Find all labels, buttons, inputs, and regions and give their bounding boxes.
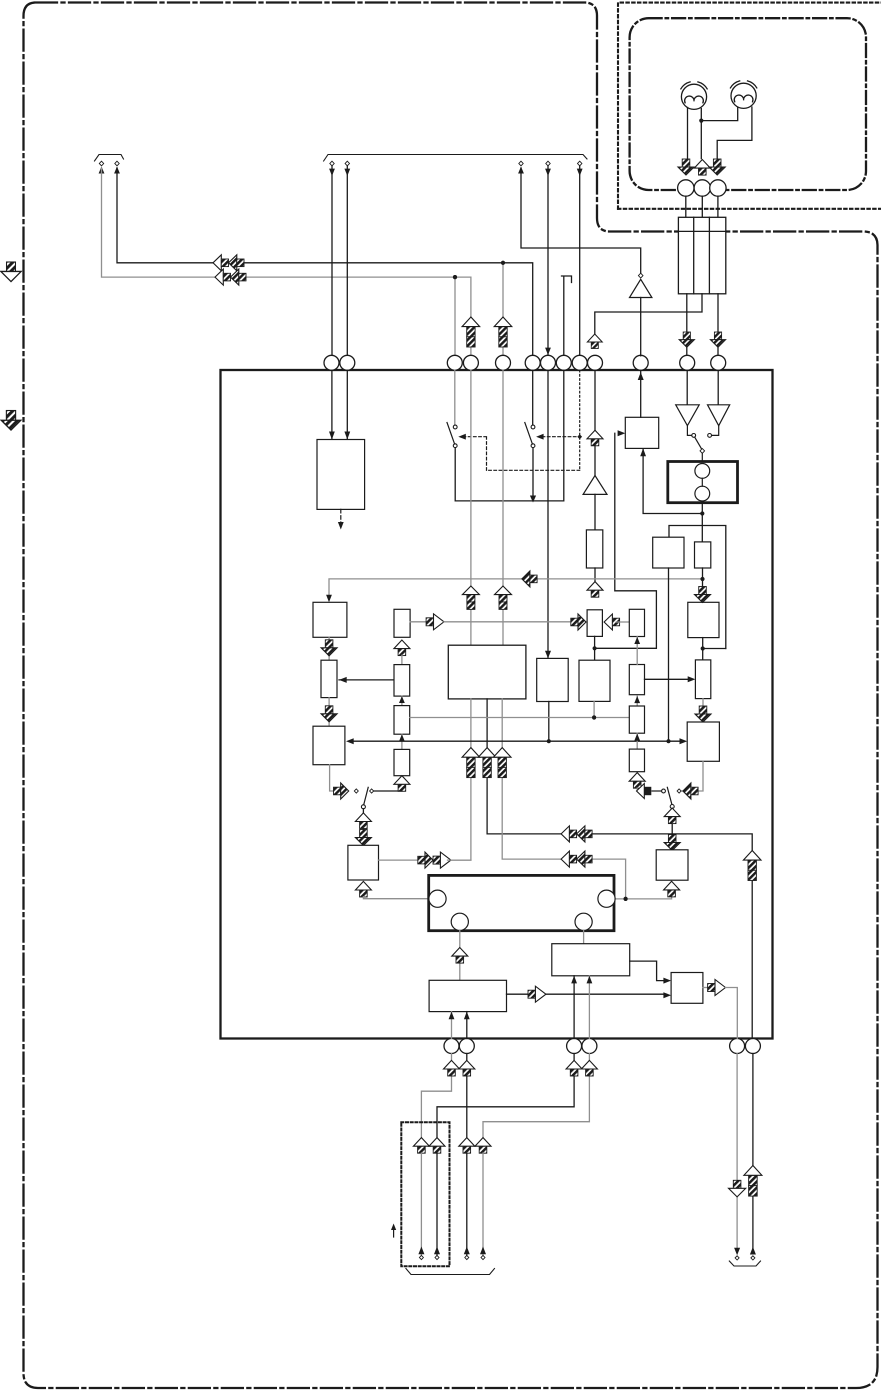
wire pin to switch S2 — [532, 370, 534, 425]
U1 left input with arrowhead, feedback loop path — [595, 433, 657, 648]
block A: EQ — [313, 602, 347, 637]
block: small buffer — [587, 610, 602, 637]
gray feed pin to DSP top — [502, 370, 504, 645]
black feed pin to mixer block with arrowhead — [547, 370, 549, 658]
wire S1/S2 outputs merge and rise to pin — [455, 370, 564, 501]
block: level shifter (tall) — [586, 530, 602, 568]
node diamond w1 — [330, 161, 334, 166]
connector bracket (top centre) — [324, 155, 587, 162]
right column rect RC2 — [629, 665, 644, 695]
down arrow type A on left wire — [729, 1180, 746, 1197]
wires pins w1,w2 into input block with arrowheads — [332, 370, 347, 439]
block: volume control (thick) — [668, 462, 738, 503]
column2 rect 3 — [394, 706, 410, 735]
junction node — [501, 261, 505, 265]
right column rect RC1 — [629, 609, 644, 636]
cable bracket below — [406, 1269, 495, 1275]
block D output right to U3 — [507, 993, 529, 995]
off-page arrow (left edge, to other page) type B down — [1, 411, 21, 431]
B3b bottom to gray bus junction — [593, 701, 595, 717]
flow arrow down (mic signal) — [678, 159, 694, 175]
amp triangle up (headphone) — [583, 476, 607, 495]
right column rect RC3 — [629, 706, 644, 733]
column2 rect 4 — [394, 749, 410, 775]
flow arrow down below limiter — [328, 698, 330, 727]
column2 rect 1 — [394, 609, 410, 637]
junction arrow on merge line — [530, 496, 536, 503]
SW4 pole chain down to U2 — [671, 809, 673, 850]
left flow arrow (hatched) on B5 output — [683, 783, 698, 799]
gray line col2R1 to buffer with arrows — [444, 621, 572, 623]
wire w3 up-arrow output from amp — [518, 167, 524, 174]
block V3 narrow — [695, 660, 710, 699]
block C output right to DSP return — [379, 859, 418, 861]
control junction diamond — [577, 434, 582, 439]
RC2 output right to V3 — [645, 678, 692, 680]
wire connector cell3 down to pin — [717, 294, 719, 356]
small reference arrow — [393, 1228, 395, 1237]
up arrow dbl-box on output return line — [743, 851, 761, 881]
dotted group box — [401, 1122, 449, 1266]
wire down across gray bus — [594, 568, 596, 582]
right output pair below box — [736, 1054, 738, 1250]
off-page arrow (left edge, to other page) type A down — [1, 262, 21, 282]
SW3 pole chain down to block C — [362, 809, 364, 846]
wire connector cell1 down to pin — [686, 294, 688, 356]
selector switch from amps — [687, 426, 718, 436]
switch SW3 contacts — [354, 789, 358, 793]
microphone MIC1 — [681, 82, 707, 110]
node diamond w5 — [578, 161, 582, 166]
T split under volume — [669, 526, 726, 649]
node diamond w3 — [519, 161, 523, 166]
junction gray bus into codec wire — [624, 897, 628, 901]
up arrow dbl-box above pin (gray column) — [462, 317, 480, 347]
flow arrows pair left (upper line) — [213, 255, 244, 271]
amp triangle down (mic L) — [676, 405, 700, 426]
right column rect RC4 — [629, 749, 644, 772]
feedback branch to U1 square bottom — [643, 448, 702, 513]
block: U1 control square — [625, 417, 658, 448]
up arrow below col2R1 — [394, 640, 410, 656]
cable bracket below right pair — [729, 1261, 760, 1266]
junction node — [453, 275, 457, 279]
codec DAC-R wire down to block E — [583, 931, 585, 944]
up arrow dbl-box on DSP feed — [462, 586, 479, 609]
pin circle — [694, 180, 710, 196]
left flow arrow pair on pin-752 bus — [561, 826, 592, 842]
block: audio codec (thick) — [429, 875, 614, 930]
wire gray branch down to pin — [454, 277, 456, 356]
up arrow below RC4 — [629, 773, 645, 789]
wire connector cell2 down, left, down to pin — [595, 294, 702, 334]
pin circle — [678, 180, 694, 196]
block: DSP core — [448, 645, 526, 699]
left flow arrow pair on codec bus — [561, 851, 592, 867]
node diamond w2 — [345, 161, 349, 166]
block: compander B4 — [688, 602, 719, 637]
microphone MIC2 — [730, 81, 756, 109]
block aux BK-653 — [653, 537, 684, 568]
codec wire from DAC right circle to U2 bottom — [615, 897, 672, 899]
dashed control path to switches — [461, 437, 580, 471]
wire pin595 down — [594, 370, 596, 475]
wire monitor rect down to B4 with junction to gray bus — [702, 568, 704, 602]
arrowhead up (signal out) — [99, 167, 105, 174]
BK-653 bottom to black bus — [668, 568, 670, 741]
block: input stage — [317, 440, 365, 510]
U1 output up to pin with arrowhead — [640, 370, 642, 417]
wire MIC1 left lead — [687, 108, 689, 159]
junction node — [699, 119, 703, 123]
node diamond — [99, 161, 103, 166]
monitor rect above B4 — [695, 542, 711, 568]
stubs: arrow down + diamond / arrow up + diamond — [734, 1248, 740, 1256]
left flow arrow on bus — [522, 571, 537, 587]
node diamond — [115, 161, 119, 166]
block D: line amp — [429, 980, 506, 1011]
black square marker + white arrow left (RC4 feed) — [652, 790, 662, 792]
block U3: output mux — [671, 973, 703, 1004]
arrow up into col2R3 from bus — [401, 734, 403, 749]
block E: headphone amp — [552, 944, 630, 976]
switch S2 — [531, 425, 535, 429]
gray bus to block A (from monitor rect output) — [329, 579, 703, 597]
wire pin to switch S1 — [454, 370, 456, 425]
B5 output down to selector — [681, 761, 703, 791]
flow arrow up (bias) — [694, 160, 710, 176]
block B: output filter — [313, 726, 345, 765]
wire gray branch down to pin — [502, 263, 504, 356]
arrowhead into S1 — [458, 434, 466, 440]
buffer out down to junction — [594, 636, 596, 660]
block C bottom via up arrow to codec left circle — [355, 881, 371, 897]
up arrow on cell2 wire above pin — [587, 334, 602, 349]
wire MIC1 right lead to junction and MIC2 left lead — [701, 108, 737, 159]
arrow into B5 from black bus — [680, 738, 688, 744]
wire black: inner left lead down then right to pin column — [117, 168, 533, 356]
arrowhead up (signal out) — [114, 167, 120, 174]
codec port circles — [429, 890, 446, 907]
column pin595: up arrow — [587, 430, 603, 446]
V3 down to B5 with arrow — [702, 699, 704, 722]
gray feed pin to DSP top — [470, 370, 472, 645]
wire mic pin to amp triangle — [717, 370, 719, 405]
small flow arrow down on cell1 wire — [679, 332, 694, 347]
codec DAC-L wire down to block D — [459, 931, 461, 981]
col2 output right arrow — [410, 621, 444, 623]
block E output right, step down into U3 — [630, 961, 667, 981]
switch S1 — [453, 425, 457, 429]
up arrow dbl-box on DSP feed — [495, 586, 512, 609]
wire MIC2 right lead down-left — [717, 107, 752, 159]
up arrow below col2R4 — [394, 776, 410, 792]
second row up arrows — [413, 1138, 429, 1154]
block: mixer B3b — [579, 660, 610, 701]
amp triangle down (mic R) — [708, 405, 730, 426]
B3a bottom to bus junction — [548, 702, 550, 742]
below-box: up arrows under pins — [421, 1054, 451, 1138]
wires down to stubs — [420, 1153, 422, 1255]
wires pins to connector — [686, 196, 718, 217]
bottom pin circles — [444, 1039, 760, 1054]
volume pots circles — [695, 464, 710, 479]
arrowhead into S2 — [536, 434, 544, 440]
block C: DAC interface — [348, 845, 379, 880]
SW3 right contact to col2R4 via up arrow — [374, 790, 402, 793]
block U2 output DAC switch — [656, 850, 688, 880]
flow arrow down below A — [328, 637, 330, 660]
wire w2 down to pin with arrowhead — [346, 166, 348, 356]
connector 3-pin block — [678, 217, 725, 293]
node diamond w4 — [546, 161, 550, 166]
dotted shield box (top right) — [618, 3, 881, 209]
up arrow dbl-box on right wire — [744, 1166, 762, 1197]
dotted control line from pin w5 — [579, 370, 581, 470]
B4 output down with branch — [702, 638, 704, 660]
flow arrow down (mic signal) — [709, 159, 725, 175]
wire gray: outer left lead down then right to pin column — [102, 168, 471, 356]
right flow arrow (hatched) to SW3 — [334, 783, 349, 799]
main board block — [221, 370, 773, 1039]
arrow up into RC3 from bus — [636, 733, 638, 749]
arrow up between RC3 and RC2 — [636, 696, 638, 706]
wire w4 down to pin with arrowheads — [547, 166, 549, 356]
dashed stub below input stage — [340, 509, 342, 524]
U3 output right with arrow to pin column — [703, 987, 707, 989]
block B5 — [687, 722, 719, 761]
block: limiter (narrow) — [321, 660, 337, 697]
wire w1 down to pin with arrowhead — [331, 166, 333, 356]
selector switch SW4 — [677, 789, 681, 793]
open stub with cap above pin — [562, 276, 572, 356]
black bus lower (to block B / B5) — [351, 740, 681, 742]
wire amp to level rect — [594, 494, 596, 530]
column2 rect 2 — [394, 665, 410, 697]
wire w5 down to pin with arrowhead — [579, 166, 581, 356]
up arrow — [587, 582, 603, 598]
DSP bottom wires with dbl up arrows — [448, 699, 471, 860]
arrow up below RC1 — [636, 637, 638, 645]
gray bus mid — [410, 717, 630, 719]
wire mic pin to amp triangle — [686, 370, 688, 405]
arrow up between col2 rects — [401, 696, 403, 706]
block E inputs from pins — [573, 976, 575, 1039]
small flow arrow down on cell3 wire — [710, 332, 725, 347]
microphone unit dash-dot border — [630, 18, 866, 190]
arrow into limiter right edge — [339, 679, 394, 681]
block: mixer B3a — [537, 658, 569, 701]
connector bracket (top left) — [95, 155, 124, 162]
block B output down to SW3 — [330, 765, 333, 791]
amp triangle up above pin — [630, 279, 652, 297]
wire volume out down with junction — [701, 503, 703, 542]
pin circle — [710, 180, 726, 196]
block D inputs from pins — [451, 1012, 453, 1039]
up arrow dbl-box above pin (gray column) — [494, 317, 512, 347]
stub arrowheads up + node diamonds — [418, 1247, 424, 1255]
top pin circles — [324, 355, 726, 370]
flow arrows pair left (lower line) — [215, 269, 246, 285]
